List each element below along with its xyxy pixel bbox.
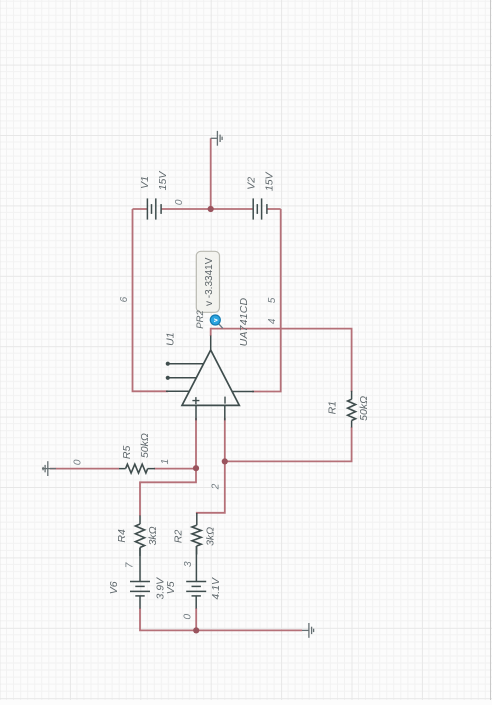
svg-text:3kΩ: 3kΩ	[147, 526, 159, 545]
svg-text:15V: 15V	[263, 171, 275, 191]
svg-text:4: 4	[267, 318, 278, 324]
svg-text:0: 0	[174, 199, 185, 205]
svg-text:1: 1	[160, 459, 171, 465]
svg-text:50kΩ: 50kΩ	[139, 433, 151, 458]
svg-text:UA741CD: UA741CD	[238, 297, 250, 346]
svg-text:0: 0	[183, 613, 194, 619]
svg-text:4.1V: 4.1V	[210, 577, 222, 600]
svg-text:PR2: PR2	[195, 310, 206, 329]
svg-text:5: 5	[267, 297, 278, 303]
svg-text:2: 2	[211, 483, 222, 490]
svg-text:50kΩ: 50kΩ	[358, 396, 370, 421]
svg-text:V5: V5	[165, 581, 177, 594]
svg-text:R4: R4	[116, 529, 128, 543]
svg-text:0: 0	[72, 459, 83, 465]
svg-text:R2: R2	[172, 530, 184, 544]
svg-text:R5: R5	[121, 446, 133, 460]
svg-text:3kΩ: 3kΩ	[204, 527, 216, 546]
svg-text:V6: V6	[108, 581, 120, 594]
svg-text:V2: V2	[245, 177, 257, 190]
svg-text:7: 7	[124, 562, 135, 568]
svg-text:15V: 15V	[157, 171, 169, 191]
svg-text:v -3.3341V: v -3.3341V	[204, 257, 215, 306]
svg-text:R1: R1	[326, 401, 338, 414]
svg-text:3: 3	[183, 561, 194, 567]
svg-text:V1: V1	[139, 176, 151, 189]
svg-text:v: v	[213, 318, 220, 322]
svg-text:6: 6	[119, 296, 130, 302]
svg-text:U1: U1	[165, 332, 177, 345]
